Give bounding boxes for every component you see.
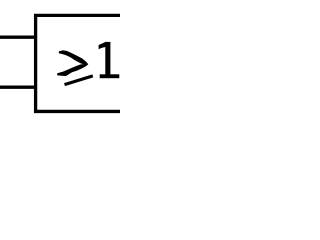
OR gate U1 (IEC box symbol) [36, 15, 125, 111]
wire input B [0, 86, 37, 89]
label ≥1 : chevron of ge sign [57, 50, 88, 76]
label ≥1 : digit 1 foot serif [100, 74, 120, 78]
label ≥1 : slanted underbar of ge sign [65, 76, 93, 85]
wire input A [0, 36, 37, 39]
label ≥1 : digit 1 stem [105, 42, 110, 75]
label ≥1 : digit 1 flag [99, 42, 106, 49]
